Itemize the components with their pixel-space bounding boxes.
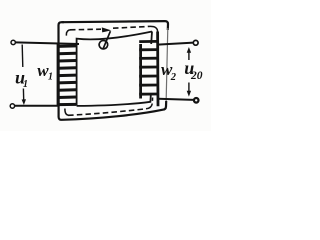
svg-text:1: 1 <box>23 79 28 90</box>
svg-text:20: 20 <box>190 70 203 82</box>
svg-text:1: 1 <box>48 72 53 83</box>
svg-text:2: 2 <box>170 72 177 83</box>
